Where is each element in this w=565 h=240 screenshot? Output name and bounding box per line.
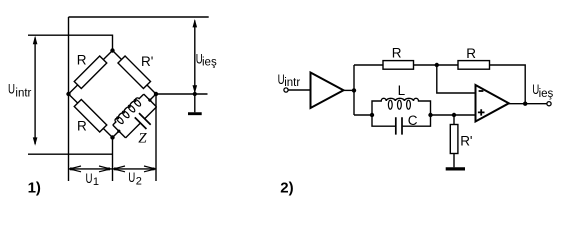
wire input top to bridge top vertex [28, 35, 113, 50]
node between R1 R2 [435, 63, 439, 67]
wire arm left-bottom [69, 94, 113, 138]
terminal Uintr circuit 2 [284, 88, 288, 92]
capacitor C branch [372, 115, 431, 126]
node bridge top vertex [110, 48, 114, 52]
svg-text:U: U [8, 82, 15, 97]
resistor R' [450, 125, 458, 154]
capacitor plates of Z [135, 113, 151, 129]
wire to R1 [354, 64, 383, 66]
wire top bus circuit 1 [69, 16, 209, 18]
wire buffer node vertical [353, 65, 355, 115]
wire output [509, 103, 547, 105]
wire node to LC [354, 114, 372, 116]
pin + marker [478, 109, 485, 115]
svg-text:ieş: ieş [539, 88, 554, 100]
wire bottom vertex vertical with extension [112, 138, 114, 182]
svg-text:U: U [128, 170, 135, 185]
resistor R (bottom-left arm) [74, 99, 107, 132]
node LC right [428, 113, 432, 117]
wire input to buffer [288, 89, 310, 91]
U1 U2 dimension line [69, 168, 157, 170]
Uintr dimension arrow [34, 38, 36, 145]
svg-text:C: C [408, 113, 418, 128]
svg-text:intr: intr [284, 77, 300, 89]
svg-text:2): 2) [280, 180, 293, 197]
node feedback output [523, 102, 527, 106]
svg-text:1): 1) [28, 180, 41, 197]
svg-text:R: R [77, 52, 87, 67]
node output junction [193, 92, 197, 96]
wire R1 to R2 [414, 64, 459, 66]
wire split stub right [144, 94, 157, 107]
node Z split left [117, 129, 122, 134]
node Z split right [148, 98, 153, 103]
resistor R' (top-right arm) [118, 56, 151, 89]
resistor R (second) [458, 61, 490, 70]
op-amp U2 [476, 85, 509, 122]
svg-text:2: 2 [136, 176, 142, 188]
wire split stub left [113, 125, 126, 138]
node bridge bottom vertex [110, 135, 114, 139]
wire LC to + input [431, 114, 476, 116]
wire arm left-top [69, 51, 113, 95]
node R' top [452, 113, 456, 117]
wire right vertex extension down [155, 94, 157, 181]
resistor R (first) [383, 61, 414, 70]
inductor L branch [372, 98, 431, 115]
capacitor branch of Z [126, 107, 157, 138]
wire input bottom to bridge bottom vertex [28, 153, 113, 155]
wire R' to ground [453, 154, 455, 168]
wire node to R' [453, 115, 455, 125]
ground circuit 1 [194, 94, 196, 112]
capacitor C plates [396, 117, 402, 134]
svg-text:R': R' [141, 54, 153, 69]
pin - marker [479, 90, 484, 92]
svg-text:Z: Z [138, 131, 147, 147]
wire R2 to feedback corner [490, 65, 526, 104]
svg-text:1: 1 [93, 176, 99, 188]
node LC left [370, 113, 374, 117]
wire buffer output [344, 89, 355, 91]
inductor L branch of Z [111, 92, 144, 125]
node bridge left vertex [66, 92, 70, 96]
svg-text:R: R [466, 46, 476, 61]
node bridge right vertex [154, 92, 158, 96]
svg-text:R: R [77, 118, 87, 133]
ground circuit 2 [446, 167, 465, 170]
svg-text:intr: intr [15, 87, 31, 99]
wire left vertical (node A to bridge left vertex, extension down) [68, 17, 70, 181]
resistor R (top-left arm) [74, 56, 107, 89]
svg-text:U: U [86, 171, 93, 186]
terminal Uies circuit 2 [547, 102, 551, 106]
wire lead from bottom vertex [113, 131, 119, 137]
wire to inverting input [437, 65, 476, 93]
wire arm top-right [113, 51, 157, 95]
impedance Z (L parallel C on bottom-right arm) [105, 86, 169, 150]
svg-text:ieş: ieş [202, 56, 217, 68]
node buffer output [352, 88, 356, 92]
svg-text:L: L [398, 83, 406, 98]
svg-text:R': R' [460, 133, 472, 148]
Uies dimension arrow [194, 21, 196, 93]
op-amp buffer U1 [311, 73, 344, 109]
svg-text:R: R [392, 45, 402, 60]
wire lead to right vertex [150, 94, 156, 100]
wire output from right vertex [156, 93, 208, 95]
